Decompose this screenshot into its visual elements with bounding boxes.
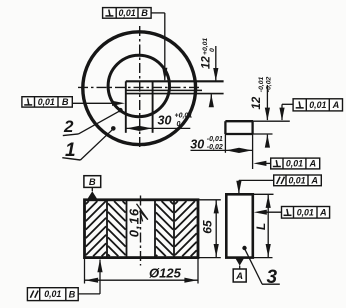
key section top edge bbox=[225, 120, 253, 122]
leader from bottom tolerance frame bbox=[78, 293, 100, 295]
roughness symbol check mark bbox=[137, 204, 148, 220]
svg-text:0,01: 0,01 bbox=[286, 159, 303, 169]
extension of section bottom edge bbox=[198, 257, 221, 259]
svg-text:L: L bbox=[254, 223, 268, 230]
arrow right dia125 bbox=[184, 278, 197, 283]
arrow right of 30 keyway dim bbox=[139, 126, 152, 131]
arrow left dia125 bbox=[85, 278, 98, 283]
svg-text:B: B bbox=[141, 8, 148, 18]
leader from parallelism frame to key top bbox=[239, 179, 274, 181]
tolerance frame perpendicularity 0,01 A mid bbox=[271, 158, 320, 169]
section boundary line 3 bbox=[154, 200, 156, 258]
datum B flag with triangle bbox=[87, 191, 97, 199]
arrow up 65 bbox=[214, 200, 219, 213]
svg-text:B: B bbox=[69, 289, 76, 299]
svg-text:0,01: 0,01 bbox=[297, 207, 314, 217]
hatching band 4 bbox=[175, 201, 178, 204]
key side view rectangle bbox=[226, 194, 253, 257]
svg-text:A: A bbox=[310, 175, 318, 185]
svg-text:+0,01: +0,01 bbox=[202, 38, 209, 55]
horizontal centerline of disc bbox=[78, 86, 202, 88]
section vertical centerline bbox=[140, 196, 142, 266]
svg-text:0,01: 0,01 bbox=[44, 289, 61, 299]
tolerance frame perpendicularity 0,01 B left bbox=[22, 97, 72, 107]
arrow down 65 bbox=[214, 244, 219, 257]
dimension line 12 lower with arrow bbox=[209, 94, 214, 107]
svg-text:+0,01: +0,01 bbox=[175, 113, 193, 120]
svg-text:12: 12 bbox=[201, 56, 213, 69]
arrow right 30 key bbox=[239, 148, 252, 153]
extension of key bottom edge right bbox=[253, 257, 273, 259]
leader from left tolerance frame bbox=[72, 102, 113, 104]
hatching band 1 bbox=[86, 201, 89, 204]
keyway bottom edge with extension bbox=[126, 93, 224, 95]
svg-text:-0,02: -0,02 bbox=[207, 144, 223, 151]
keyway left edge bbox=[125, 81, 127, 133]
svg-text:-0,01: -0,01 bbox=[258, 76, 265, 92]
hatching band 3 bbox=[170, 201, 173, 204]
roughness value 0,16 rotated bbox=[126, 208, 141, 237]
svg-text:0: 0 bbox=[177, 121, 181, 128]
extension of section top edge bbox=[198, 199, 221, 201]
dimension line 65 bbox=[215, 200, 217, 258]
svg-text:A: A bbox=[332, 100, 340, 110]
rotated dimension text L bbox=[254, 223, 268, 230]
svg-text:65: 65 bbox=[201, 220, 215, 234]
key section right edge bbox=[251, 121, 253, 134]
rotated dimension text 12+0,01/0 bbox=[201, 38, 217, 69]
leader from lower frame to key right edge bbox=[258, 211, 282, 213]
section boundary line 2 bbox=[126, 200, 128, 258]
dimension line 12 upper with arrow bbox=[215, 46, 217, 81]
tolerance frame parallelism 0,01 A bbox=[274, 175, 322, 186]
leader dot for label 2 bbox=[118, 108, 123, 113]
key section top edge extension bbox=[253, 120, 290, 122]
keyway mid line bbox=[126, 89, 202, 91]
section boundary line 1 bbox=[106, 200, 108, 258]
svg-text:-0,02: -0,02 bbox=[266, 76, 273, 92]
extension line left for diameter bbox=[84, 258, 86, 284]
svg-text:30: 30 bbox=[190, 137, 204, 151]
svg-text:Ø125: Ø125 bbox=[149, 266, 182, 281]
key section left edge bbox=[224, 121, 226, 134]
dimension line diameter 125 bbox=[85, 279, 199, 281]
leader dot for label 3 bbox=[242, 246, 246, 250]
tolerance frame perpendicularity 0,01 A right bbox=[293, 99, 342, 111]
leader from top tolerance frame bbox=[151, 12, 165, 14]
svg-text:A: A bbox=[308, 159, 316, 169]
svg-text:12: 12 bbox=[251, 96, 263, 109]
svg-text:0,01: 0,01 bbox=[119, 8, 136, 18]
vertical centerline of disc bbox=[139, 26, 141, 149]
svg-text:B: B bbox=[62, 97, 69, 107]
svg-text:0,16: 0,16 bbox=[126, 208, 141, 237]
extension line below key right long bbox=[252, 134, 254, 169]
arrow left of 30 keyway dim bbox=[126, 126, 139, 131]
svg-text:0,01: 0,01 bbox=[288, 175, 305, 185]
dimension line 30 keyway bbox=[126, 127, 191, 129]
tolerance frame perpendicularity 0,01 B top bbox=[103, 8, 152, 19]
keyway top edge with extension bbox=[126, 80, 224, 82]
leader line label 3 bbox=[245, 248, 263, 283]
key section bottom edge bbox=[225, 133, 253, 135]
svg-text:B: B bbox=[89, 176, 96, 187]
svg-text:A: A bbox=[235, 270, 243, 281]
dimension 12 key upper arrow bbox=[266, 85, 268, 120]
svg-text:2: 2 bbox=[63, 117, 74, 136]
outer circle of disc bbox=[83, 32, 196, 145]
svg-text:A: A bbox=[319, 207, 327, 217]
leader line label 1 bbox=[80, 129, 113, 160]
extension of key top edge right bbox=[253, 193, 274, 195]
leader dot for label 1 bbox=[111, 126, 116, 131]
section boundary line 4 bbox=[173, 200, 175, 258]
leader from mid frame to key side extension bbox=[258, 162, 271, 164]
svg-text:0: 0 bbox=[209, 48, 216, 52]
svg-text:30: 30 bbox=[158, 114, 172, 128]
rotated dimension text 65 bbox=[201, 220, 215, 234]
leader line label 2 bbox=[79, 111, 121, 134]
arrow left 30 key bbox=[226, 148, 239, 153]
extension line right for diameter bbox=[197, 258, 199, 284]
svg-text:0,01: 0,01 bbox=[309, 100, 326, 110]
dimension line 30 key bbox=[191, 149, 253, 151]
svg-text:0,01: 0,01 bbox=[38, 97, 55, 107]
rotated dimension text 12-0,01/-0,02 bbox=[251, 76, 272, 109]
arrow up L bbox=[266, 195, 271, 208]
hatching band 2 bbox=[123, 201, 126, 204]
tolerance frame parallelism 0,01 B bottom bbox=[27, 288, 78, 301]
dimension line L bbox=[267, 194, 269, 257]
inner bore circle bbox=[108, 55, 169, 116]
disc section rectangle outline bbox=[85, 200, 199, 258]
keyway right edge bbox=[152, 81, 154, 133]
svg-text:-0,01: -0,01 bbox=[207, 136, 223, 143]
key section bottom edge extension bbox=[253, 133, 272, 135]
extension line below key left bbox=[224, 134, 226, 153]
datum A flag with triangle bbox=[235, 258, 244, 266]
arrow down L bbox=[266, 244, 271, 257]
dimension 12 key lower arrow bbox=[265, 135, 270, 148]
leader from right tolerance frame to key top bbox=[282, 103, 293, 105]
tolerance frame perpendicularity 0,01 A lower bbox=[282, 207, 330, 219]
